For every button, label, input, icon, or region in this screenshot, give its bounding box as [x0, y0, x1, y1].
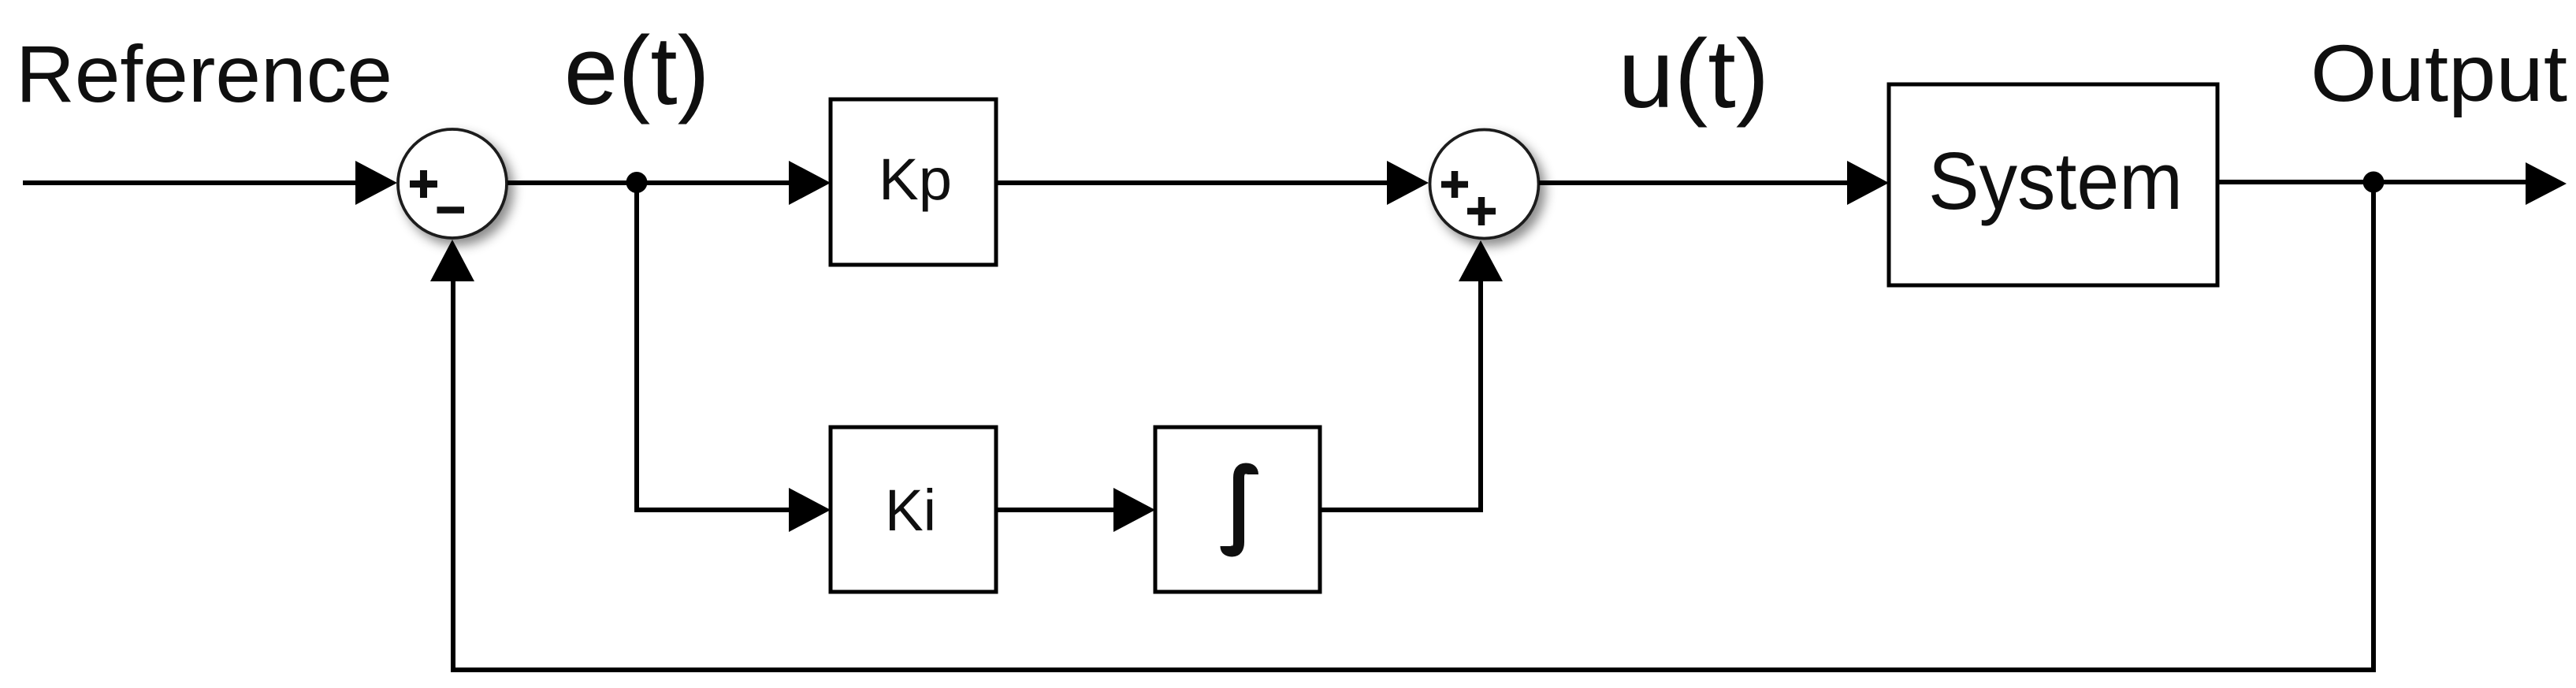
svg-text:System: System	[1928, 136, 2183, 226]
svg-text:Output: Output	[2310, 28, 2567, 118]
svg-text:e(t): e(t)	[564, 17, 710, 125]
svg-text:Reference: Reference	[16, 29, 392, 119]
svg-text:u(t): u(t)	[1618, 20, 1769, 128]
svg-text:Kp: Kp	[879, 147, 952, 212]
svg-text:Ki: Ki	[885, 478, 936, 543]
